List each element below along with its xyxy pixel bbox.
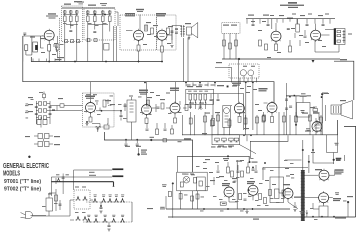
svg-text:MODELS: MODELS <box>3 168 20 177</box>
svg-text:9T002 ("T" line): 9T002 ("T" line) <box>4 187 41 193</box>
svg-text:9T001 ("T" line): 9T001 ("T" line) <box>4 179 41 185</box>
